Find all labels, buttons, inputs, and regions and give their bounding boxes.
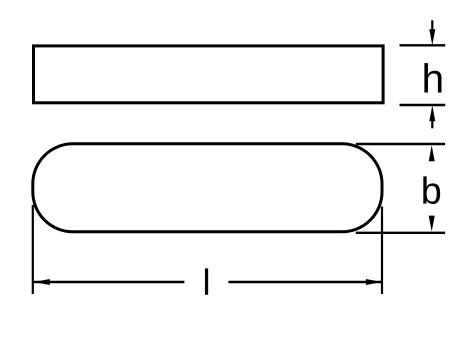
dimension line b bottom [356,232,445,234]
dimension line b top [356,143,445,145]
label l [205,268,208,294]
key top view stadium [33,144,382,232]
arrow b top [429,145,435,161]
arrow h bottom [429,105,435,128]
arrow b bottom [429,216,435,232]
dimension line l left segment [34,281,184,283]
dimension line l right segment [228,281,382,283]
arrow l right [366,279,382,285]
extension line l right [381,207,383,295]
arrow h top [429,20,435,45]
key side view rectangle [34,46,384,103]
arrow l left [34,279,50,285]
dimension line h bottom [400,104,446,106]
dimension line h top [400,44,446,46]
label h [424,63,441,92]
label b [423,176,440,204]
extension line l left [32,205,34,294]
